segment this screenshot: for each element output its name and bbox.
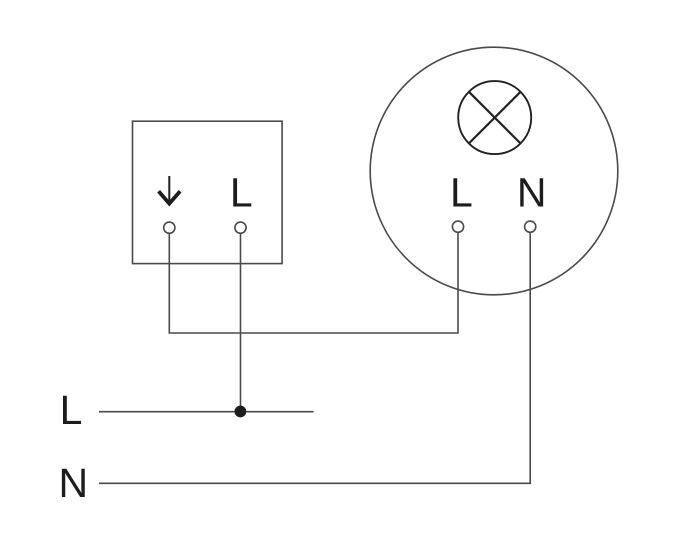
wire: L bus	[99, 411, 314, 413]
switch box S1	[133, 121, 283, 263]
wire: box arrow terminal to lamp L terminal	[169, 233, 458, 333]
terminal (lamp, N)	[525, 221, 536, 232]
svg-text:N: N	[517, 169, 547, 215]
svg-text:L: L	[60, 387, 83, 433]
lamp outline U1	[370, 47, 618, 295]
arrow symbol (switched output)	[159, 176, 181, 204]
terminal (lamp, L)	[452, 221, 463, 232]
svg-text:L: L	[450, 169, 473, 215]
lamp symbol (circle with X)	[458, 81, 531, 154]
terminal (box, L)	[235, 222, 246, 233]
svg-text:L: L	[230, 169, 253, 215]
junction dot on L bus	[235, 406, 247, 418]
svg-text:N: N	[58, 460, 88, 506]
wire: N bus up to lamp N terminal	[99, 233, 530, 483]
wire: box L terminal down to L bus	[240, 234, 242, 412]
terminal (box, arrow)	[164, 222, 175, 233]
